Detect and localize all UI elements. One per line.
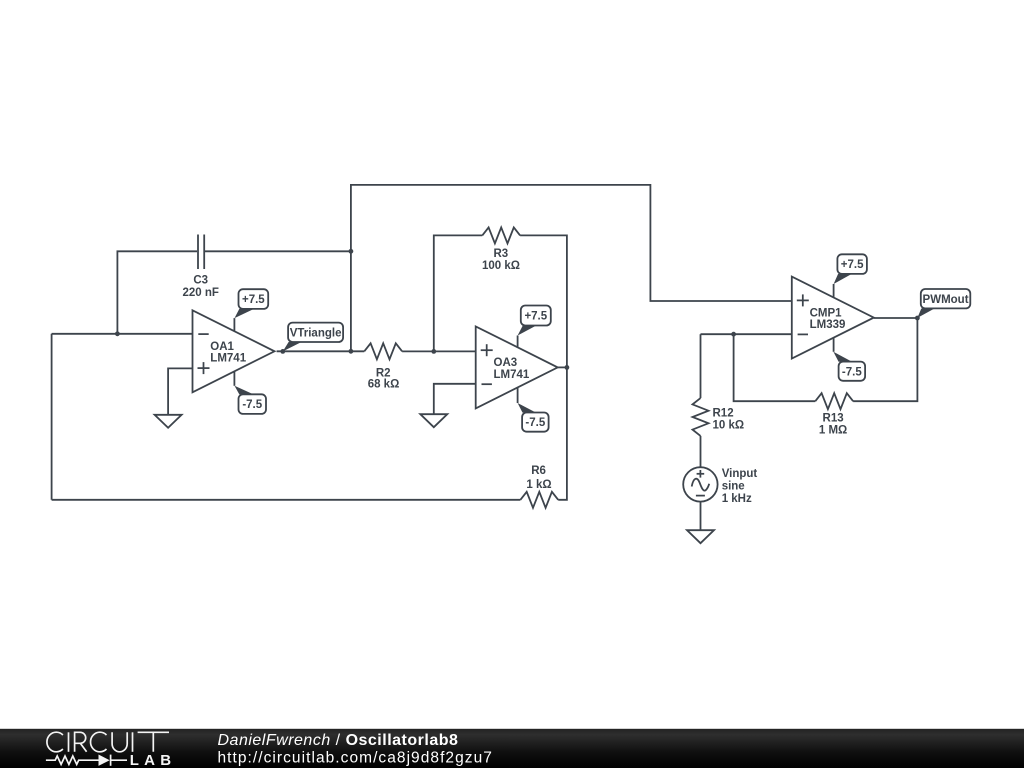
junction: C3 right / output riser bbox=[349, 249, 354, 254]
wire: OA1 output to R2 bbox=[277, 350, 365, 352]
wire: bottom feedback run to R6 bbox=[52, 499, 521, 501]
wire: R3 left lead and drop to OA3 non-inverting input bbox=[434, 235, 483, 351]
svg-text:R13: R13 bbox=[823, 412, 844, 424]
svg-text:CMP1: CMP1 bbox=[810, 307, 843, 319]
wire: drop from inverting-input junction to R13 bbox=[734, 334, 816, 401]
junction: VTriangle flag attach bbox=[280, 349, 285, 354]
svg-text:1 kHz: 1 kHz bbox=[722, 493, 752, 505]
svg-text:C3: C3 bbox=[193, 275, 208, 287]
svg-text:PWMout: PWMout bbox=[923, 294, 969, 306]
svg-text:DanielFwrench / Oscillatorlab8: DanielFwrench / Oscillatorlab8 bbox=[218, 732, 459, 749]
power flag +7.5 at OA1 bbox=[235, 289, 269, 318]
svg-text:OA3: OA3 bbox=[494, 357, 518, 369]
CircuitLab logo: CIRCUIT wordmark bbox=[47, 732, 169, 752]
ground at OA1 non-inverting input bbox=[155, 415, 182, 428]
resistor R12 10k bbox=[693, 398, 745, 436]
power flag -7.5 at OA3 bbox=[518, 403, 549, 432]
wire: CMP1 +7.5 power stub bbox=[833, 284, 835, 298]
wire: R12 bottom lead to Vinput bbox=[700, 436, 702, 467]
wire: OA3 output lead bbox=[557, 366, 567, 368]
svg-text:VTriangle: VTriangle bbox=[290, 327, 342, 339]
wire: CMP1 output lead bbox=[874, 317, 918, 319]
wire: C3 right lead to riser junction bbox=[205, 250, 351, 252]
ground at OA3 inverting input bbox=[420, 414, 447, 427]
svg-text:LAB: LAB bbox=[130, 752, 176, 768]
wire: OA3 -7.5 power stub bbox=[517, 387, 519, 403]
resistor R3 100k bbox=[482, 227, 520, 272]
net flag VTriangle at OA1 output bbox=[283, 323, 343, 352]
wire: top feedback run from OA1 output riser to CMP1 non-inverting input bbox=[351, 185, 792, 351]
wire: left rail down from OA1 inverting input bbox=[51, 334, 53, 500]
wire: Vinput bottom lead to ground bbox=[700, 502, 702, 531]
svg-text:1 kΩ: 1 kΩ bbox=[526, 479, 551, 491]
svg-text:R12: R12 bbox=[713, 408, 734, 420]
power flag -7.5 at OA1 bbox=[235, 386, 267, 414]
wire: R2 right lead to OA3 non-inverting input bbox=[402, 350, 476, 352]
comparator CMP1 LM339 bbox=[792, 277, 874, 359]
voltage source Vinput sine 1 kHz bbox=[683, 467, 757, 505]
wire: OA3 inverting input stub to ground bbox=[434, 384, 476, 414]
svg-text:+7.5: +7.5 bbox=[841, 259, 864, 271]
svg-text:R6: R6 bbox=[531, 465, 546, 477]
ground below Vinput bbox=[687, 530, 714, 543]
svg-text:-7.5: -7.5 bbox=[842, 366, 862, 378]
wire: riser from OA3 output node up to R3 bbox=[520, 235, 567, 367]
svg-text:-7.5: -7.5 bbox=[525, 417, 545, 429]
svg-text:1 MΩ: 1 MΩ bbox=[819, 425, 847, 437]
wire: R6 right lead and riser to OA3 output bbox=[558, 367, 567, 499]
svg-text:LM741: LM741 bbox=[494, 369, 530, 381]
svg-text:LM741: LM741 bbox=[210, 353, 246, 365]
junction: OA3 output node bbox=[565, 365, 570, 370]
op-amp OA3 LM741 bbox=[476, 326, 558, 408]
footer bar bbox=[0, 729, 1024, 768]
power flag -7.5 at CMP1 bbox=[833, 352, 865, 381]
wire: CMP1 -7.5 power stub bbox=[833, 338, 835, 352]
svg-text:220 nF: 220 nF bbox=[182, 287, 218, 299]
svg-text:68 kΩ: 68 kΩ bbox=[368, 379, 400, 391]
svg-text:Vinput: Vinput bbox=[722, 468, 758, 480]
wire: R12 top lead from CMP1 inverting input bbox=[700, 334, 702, 398]
wire: CMP1 inverting input run bbox=[701, 333, 792, 335]
wire: C3 left lead and riser to OA1 inverting input bbox=[117, 251, 197, 333]
svg-text:+7.5: +7.5 bbox=[242, 294, 265, 306]
power flag +7.5 at OA3 bbox=[518, 306, 551, 336]
junction: OA3 non-inverting input node bbox=[431, 349, 436, 354]
wire: OA1 inverting input bbox=[52, 333, 193, 335]
svg-text:OA1: OA1 bbox=[210, 341, 234, 353]
svg-text:10 kΩ: 10 kΩ bbox=[713, 419, 745, 431]
junction: OA1 output node bbox=[349, 349, 354, 354]
svg-text:LM339: LM339 bbox=[810, 319, 846, 331]
svg-text:R2: R2 bbox=[376, 367, 391, 379]
svg-text:+7.5: +7.5 bbox=[524, 311, 547, 323]
wire: R13 right lead and riser to CMP1 output bbox=[853, 318, 917, 401]
svg-text:sine: sine bbox=[722, 480, 745, 492]
junction: CMP1 output / PWMout bbox=[915, 316, 920, 321]
svg-text:R3: R3 bbox=[493, 248, 508, 260]
svg-text:100 kΩ: 100 kΩ bbox=[482, 260, 520, 272]
resistor R6 1k bbox=[520, 465, 558, 508]
net flag PWMout at CMP1 output bbox=[917, 289, 970, 318]
capacitor C3 bbox=[182, 235, 218, 299]
svg-text:-7.5: -7.5 bbox=[242, 399, 262, 411]
CircuitLab logo: resistor-diode strike bbox=[46, 755, 127, 766]
junction: C3 left / OA1 inverting input bbox=[115, 331, 120, 336]
op-amp OA1 LM741 bbox=[193, 310, 275, 392]
CircuitLab logo: diode arrow bbox=[99, 755, 110, 766]
junction: CMP1 inverting input node bbox=[731, 332, 736, 337]
resistor R13 1M bbox=[815, 393, 853, 436]
wire: OA1 +7.5 power stub bbox=[233, 318, 235, 331]
wire: OA1 non-inverting input stub to ground bbox=[168, 368, 192, 414]
power flag +7.5 at CMP1 bbox=[834, 254, 867, 284]
svg-text:http://circuitlab.com/ca8j9d8f: http://circuitlab.com/ca8j9d8f2gzu7 bbox=[218, 750, 493, 767]
wire: OA3 +7.5 power stub bbox=[517, 336, 519, 348]
resistor R2 68k bbox=[364, 343, 402, 390]
wire: OA1 -7.5 power stub bbox=[233, 372, 235, 386]
